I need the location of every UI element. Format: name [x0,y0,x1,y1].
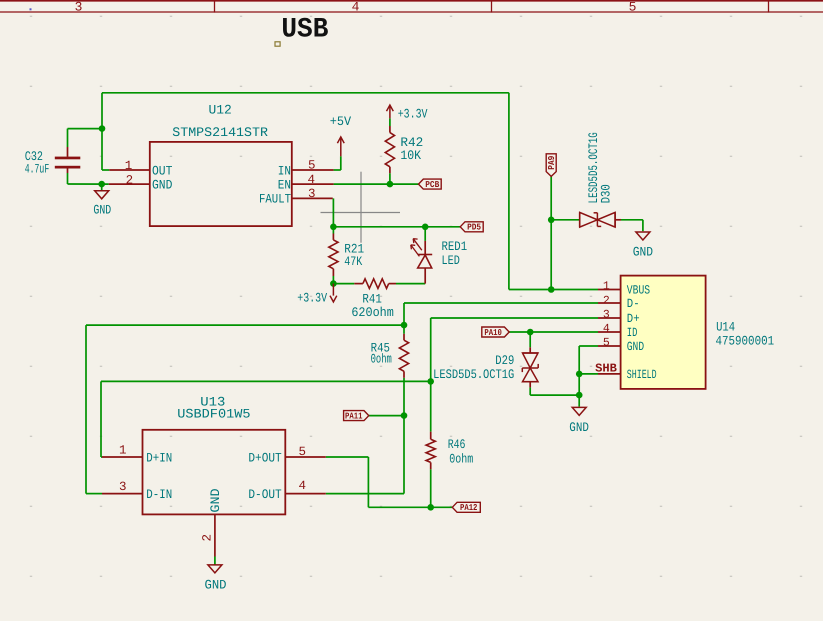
svg-text:D29: D29 [495,353,514,368]
svg-text:PA11: PA11 [345,412,363,422]
svg-text:D-IN: D-IN [146,487,172,502]
svg-text:2: 2 [603,294,610,307]
svg-text:D+OUT: D+OUT [248,450,281,465]
svg-text:LED: LED [442,253,460,268]
svg-text:5: 5 [308,158,316,172]
svg-text:+5V: +5V [330,114,351,129]
svg-text:IN: IN [278,163,291,178]
svg-text:5: 5 [299,445,307,459]
svg-text:GND: GND [633,245,653,260]
svg-text:OUT: OUT [152,163,173,178]
svg-text:D+: D+ [627,312,640,326]
svg-text:STMPS2141STR: STMPS2141STR [172,125,268,140]
svg-text:USB: USB [281,15,328,46]
svg-text:3: 3 [308,187,316,201]
svg-text:VBUS: VBUS [627,284,650,298]
svg-text:0ohm: 0ohm [449,452,473,467]
svg-text:3: 3 [119,480,127,494]
svg-text:0ohm: 0ohm [371,352,392,367]
svg-text:LESD5D5.OCT1G: LESD5D5.OCT1G [433,367,514,382]
svg-text:GND: GND [152,177,173,192]
svg-text:4: 4 [299,479,307,493]
svg-text:47K: 47K [344,254,362,269]
svg-text:475900001: 475900001 [716,334,775,349]
svg-text:ID: ID [627,326,638,340]
svg-text:2: 2 [201,534,215,542]
svg-text:D30: D30 [598,184,613,203]
svg-text:R41: R41 [362,291,382,306]
svg-text:GND: GND [93,203,111,218]
svg-text:GND: GND [208,488,223,513]
svg-text:+3.3V: +3.3V [398,107,428,122]
svg-text:PA10: PA10 [484,328,502,338]
svg-text:RED1: RED1 [442,239,468,254]
svg-text:PCB: PCB [425,180,440,190]
svg-text:GND: GND [569,420,589,435]
svg-text:4: 4 [352,0,360,15]
svg-text:GND: GND [627,340,644,354]
svg-text:D-: D- [627,297,640,311]
svg-text:1: 1 [119,443,127,457]
svg-text:U12: U12 [208,102,231,117]
svg-text:5: 5 [629,0,637,15]
svg-text:PA9: PA9 [547,156,557,170]
svg-text:4: 4 [603,323,610,336]
svg-text:10K: 10K [400,148,421,163]
svg-text:FAULT: FAULT [259,192,291,207]
svg-text:3: 3 [603,308,610,321]
svg-text:SHIELD: SHIELD [627,368,657,382]
svg-text:D+IN: D+IN [146,450,172,465]
svg-text:4: 4 [308,173,316,187]
svg-text:1: 1 [603,280,610,293]
svg-text:5: 5 [603,337,610,350]
svg-text:EN: EN [278,177,291,192]
svg-text:U14: U14 [716,319,735,334]
svg-text:3: 3 [75,0,83,15]
svg-text:GND: GND [205,578,227,593]
svg-text:SHB: SHB [595,362,617,376]
svg-text:2: 2 [126,173,134,187]
svg-text:4.7uF: 4.7uF [25,162,49,177]
svg-text:+3.3V: +3.3V [297,290,327,305]
svg-text:1: 1 [125,159,133,173]
svg-text:D-OUT: D-OUT [248,487,281,502]
svg-text:R46: R46 [448,437,466,452]
svg-text:USBDF01W5: USBDF01W5 [177,406,250,421]
svg-text:PD5: PD5 [467,223,481,233]
svg-text:PA12: PA12 [460,503,478,513]
svg-text:620ohm: 620ohm [351,305,394,320]
